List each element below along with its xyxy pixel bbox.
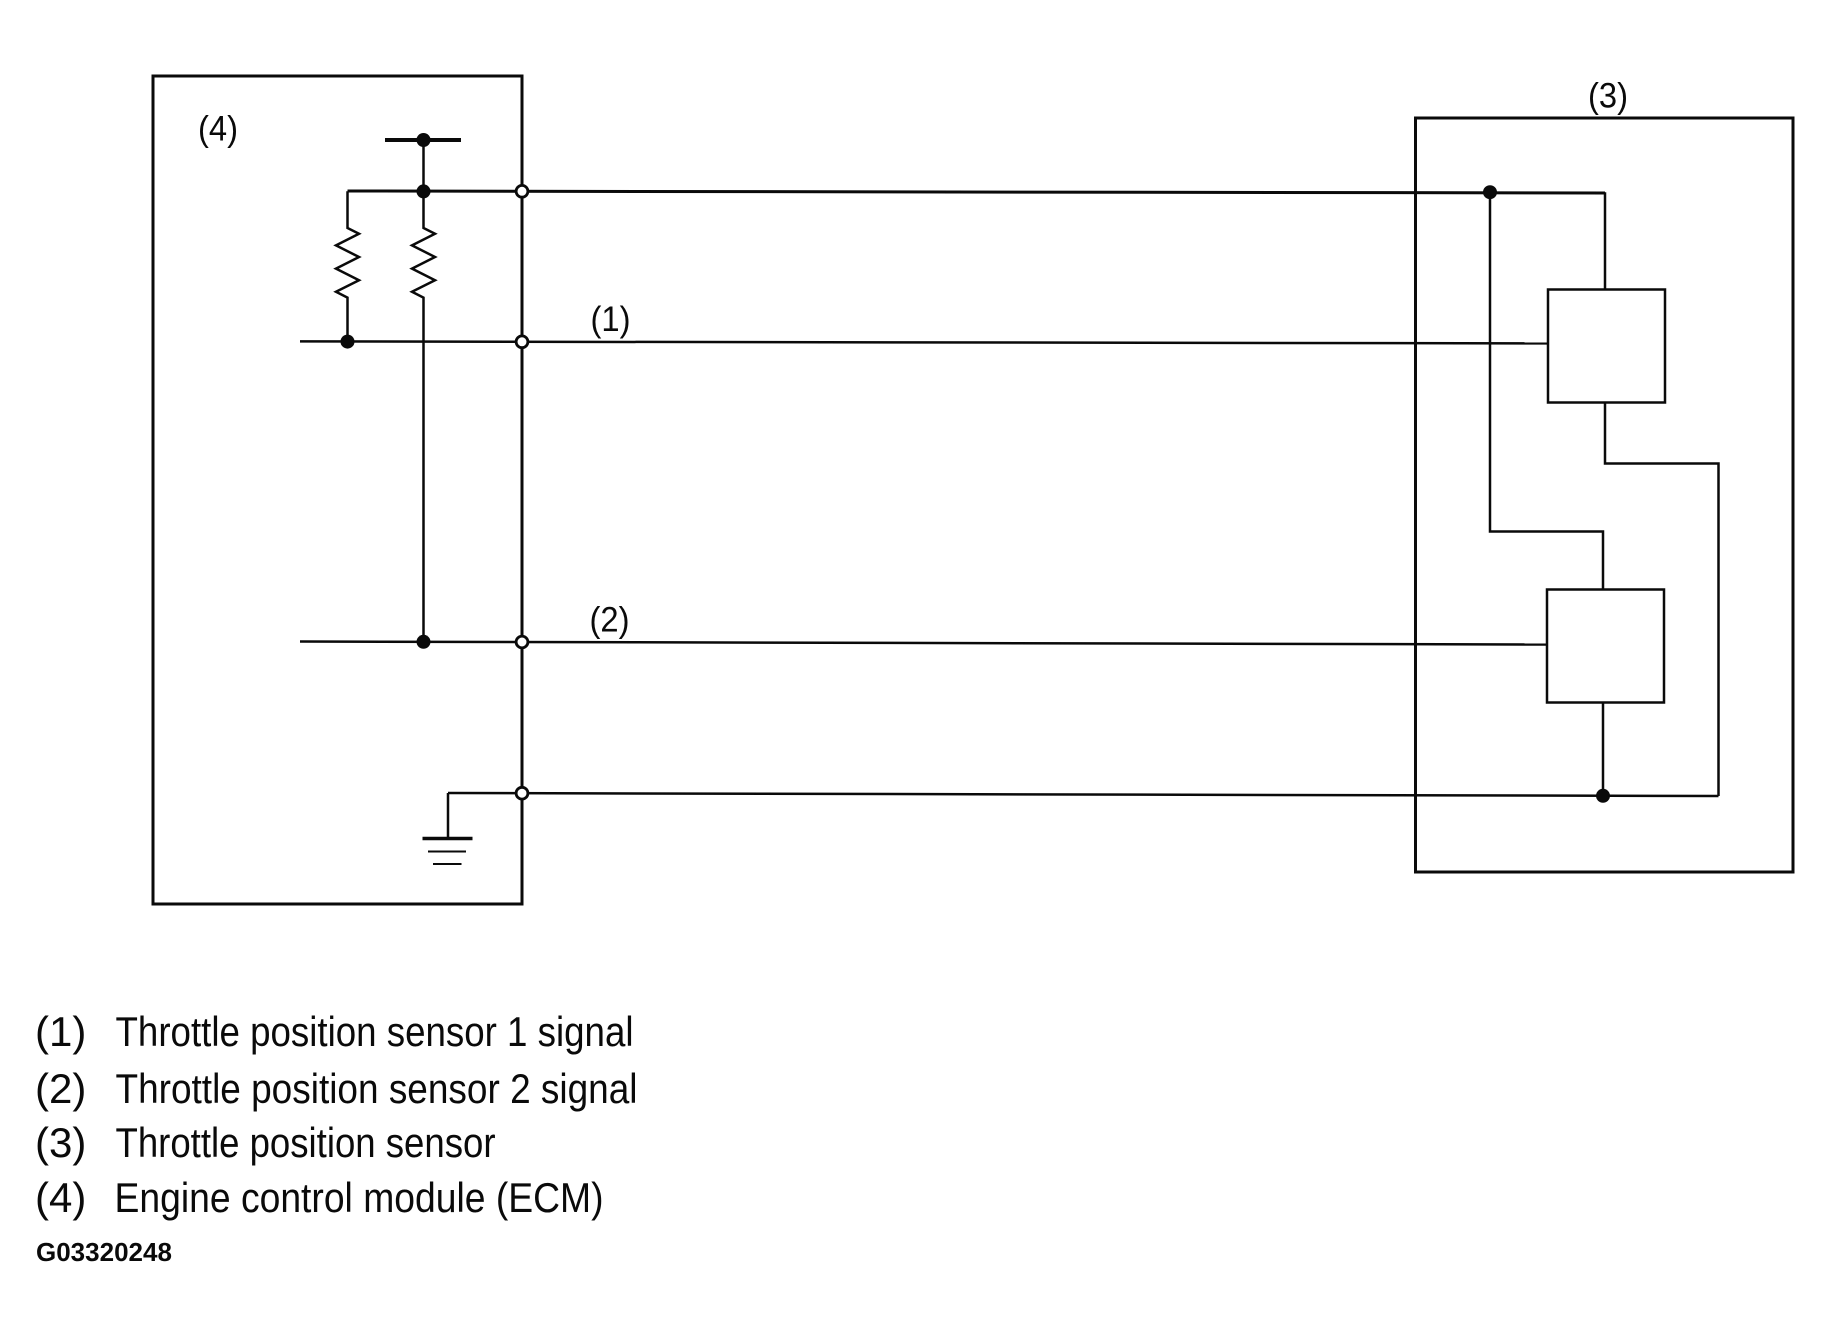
svg-text:(1): (1) (35, 1008, 86, 1055)
svg-text:(3): (3) (35, 1119, 86, 1166)
svg-text:(3): (3) (1588, 77, 1628, 116)
svg-text:(2): (2) (590, 601, 630, 640)
svg-text:(1): (1) (591, 300, 631, 339)
svg-text:(4): (4) (198, 110, 238, 149)
svg-text:(2): (2) (35, 1065, 86, 1112)
svg-text:(4): (4) (35, 1174, 86, 1221)
svg-text:Throttle position sensor 2 sig: Throttle position sensor 2 signal (116, 1065, 638, 1112)
svg-text:Throttle position sensor: Throttle position sensor (116, 1119, 496, 1166)
svg-text:Throttle position sensor 1 sig: Throttle position sensor 1 signal (116, 1008, 634, 1055)
svg-text:G03320248: G03320248 (36, 1237, 172, 1267)
svg-text:Engine control module (ECM): Engine control module (ECM) (115, 1174, 604, 1221)
